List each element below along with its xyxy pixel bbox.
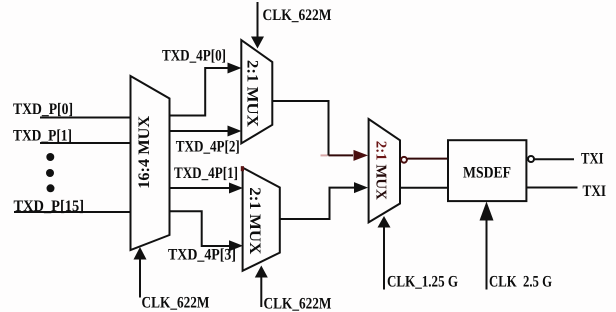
mux 16:4 U1 bbox=[131, 76, 170, 250]
svg-text:TXD_P[15]: TXD_P[15] bbox=[14, 198, 85, 215]
wire U3 output bbox=[280, 188, 354, 219]
svg-text:TXD_P[1]: TXD_P[1] bbox=[13, 128, 72, 145]
mux 2:1 U2 upper bbox=[241, 40, 272, 143]
mux 2:1 U4 bbox=[369, 119, 400, 222]
clock arrow CLK_622M top bbox=[257, 2, 259, 37]
wire TXD_4P[1] bbox=[170, 187, 231, 189]
clock arrow CLK 2.5G bbox=[486, 220, 488, 290]
mux 2:1 U3 lower bbox=[243, 168, 280, 271]
arrowhead into U4 lower bbox=[354, 182, 368, 193]
wire TXI upper bbox=[535, 158, 575, 160]
svg-text:2:1 MUX: 2:1 MUX bbox=[246, 187, 263, 254]
wire TXD_4P[0] bbox=[170, 68, 229, 116]
block MSDEF bbox=[448, 140, 526, 201]
svg-text:CLK_622M: CLK_622M bbox=[264, 296, 332, 312]
clock arrow CLK_622M into U3 bbox=[260, 277, 262, 307]
wire TXD_P[15] bbox=[14, 211, 130, 213]
arrowhead into mux1 upper bbox=[228, 63, 242, 74]
arrowhead into mux1 lower bbox=[228, 126, 242, 137]
svg-text:TXD_P[0]: TXD_P[0] bbox=[13, 101, 73, 118]
clock arrow CLK_1.25G bbox=[383, 227, 385, 290]
node bubble U4 output bbox=[401, 157, 407, 163]
svg-text:TXD_4P[0]: TXD_4P[0] bbox=[162, 48, 226, 65]
svg-text:MSDEF: MSDEF bbox=[463, 164, 511, 181]
arrowhead into mux2 upper bbox=[229, 183, 243, 194]
wire red stub left of corner bbox=[321, 154, 328, 156]
svg-text:2:1 MUX: 2:1 MUX bbox=[244, 60, 261, 127]
ellipsis dots bbox=[46, 153, 54, 161]
wire red into U4 bbox=[329, 154, 354, 156]
wire U4 lower to MSDEF bbox=[400, 187, 448, 189]
clock arrow CLK_622M into U1 bbox=[139, 259, 141, 298]
wire red U4 to MSDEF bbox=[408, 158, 449, 160]
svg-text:TXD_4P[3]: TXD_4P[3] bbox=[168, 247, 236, 264]
arrowhead red into U4 bbox=[354, 150, 369, 161]
svg-text:2:1 MUX: 2:1 MUX bbox=[373, 141, 389, 200]
svg-text:TXI: TXI bbox=[583, 183, 607, 200]
svg-text:CLK_622M: CLK_622M bbox=[263, 7, 332, 24]
red corner tick bbox=[241, 166, 244, 171]
wire TXD_P[0] bbox=[40, 117, 130, 119]
svg-text:TXD_4P[1]: TXD_4P[1] bbox=[174, 165, 238, 182]
wire U2 output bbox=[272, 101, 328, 156]
svg-text:TXI: TXI bbox=[581, 151, 604, 168]
wire TXI lower bbox=[527, 187, 578, 189]
node bubble MSDEF output bbox=[528, 156, 534, 162]
svg-text:16:4 MUX: 16:4 MUX bbox=[136, 115, 153, 188]
wire TXD_4P[2] bbox=[170, 130, 229, 132]
svg-text:CLK_1.25 G: CLK_1.25 G bbox=[387, 274, 458, 291]
arrowhead into mux2 lower bbox=[229, 240, 243, 251]
svg-text:CLK 2.5 G: CLK 2.5 G bbox=[489, 274, 552, 291]
svg-text:TXD_4P[2]: TXD_4P[2] bbox=[176, 139, 240, 156]
wire TXD_P[1] bbox=[40, 142, 130, 144]
wire TXD_4P[3] bbox=[170, 211, 231, 246]
svg-text:CLK_622M: CLK_622M bbox=[142, 295, 210, 312]
